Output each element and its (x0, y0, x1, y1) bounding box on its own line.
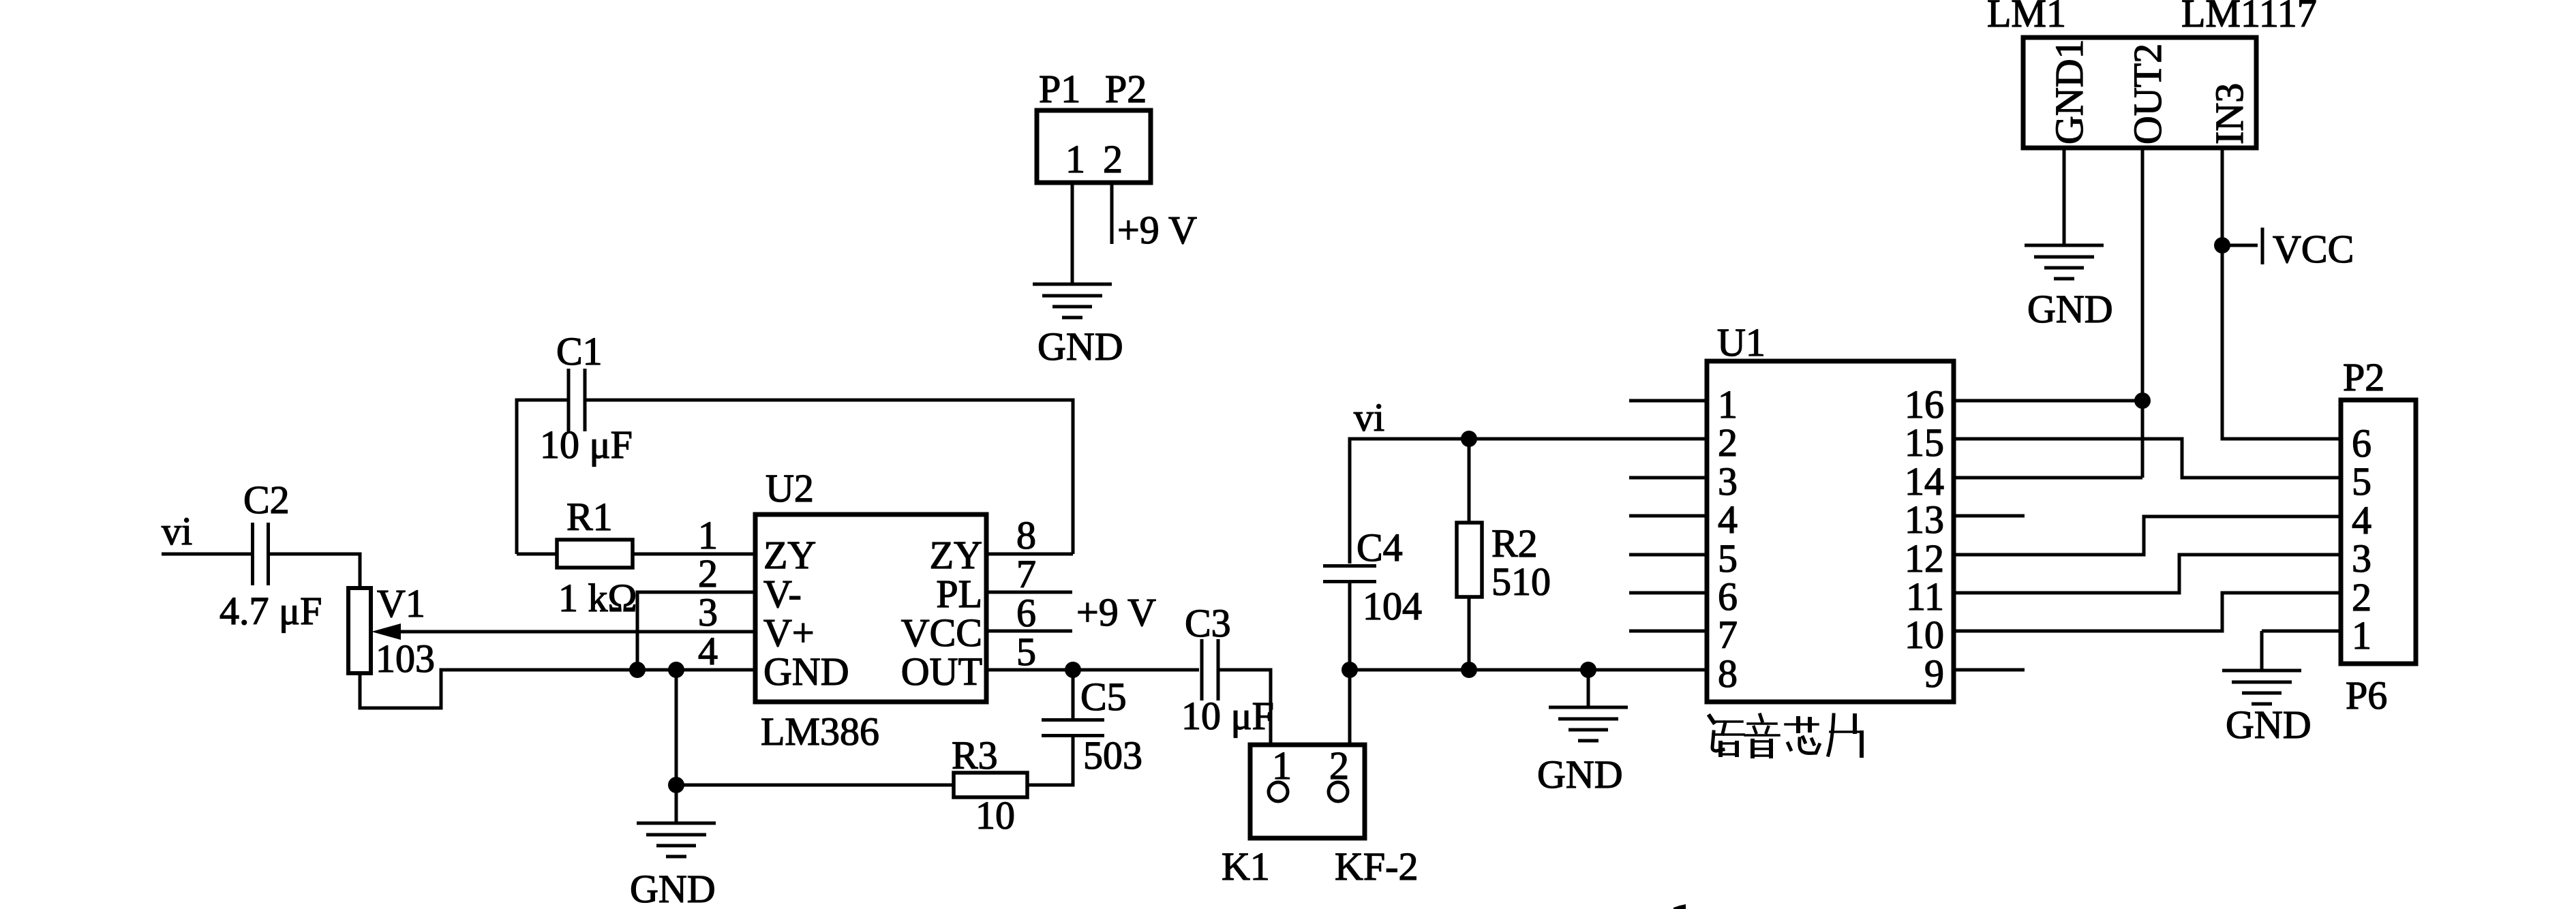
svg-text:510: 510 (1491, 559, 1551, 604)
svg-text:P1: P1 (1039, 67, 1080, 111)
svg-text:GND1: GND1 (2047, 39, 2091, 144)
svg-text:PL: PL (936, 572, 982, 616)
svg-text:R1: R1 (566, 495, 613, 539)
svg-text:10: 10 (975, 793, 1015, 837)
svg-text:GND: GND (1537, 752, 1623, 797)
svg-text:vi: vi (1354, 395, 1384, 440)
svg-text:3: 3 (698, 590, 718, 634)
svg-text:KF-2: KF-2 (1335, 844, 1418, 889)
svg-text:8: 8 (1016, 513, 1036, 557)
svg-text:4: 4 (1718, 497, 1738, 542)
svg-text:104: 104 (1363, 584, 1422, 628)
svg-text:2: 2 (1329, 743, 1349, 788)
svg-text:U2: U2 (766, 466, 814, 510)
svg-text:10: 10 (1905, 613, 1944, 657)
svg-text:503: 503 (1083, 733, 1142, 777)
svg-text:2: 2 (1103, 137, 1123, 181)
svg-text:VCC: VCC (901, 611, 982, 655)
svg-text:VCC: VCC (2273, 227, 2354, 271)
svg-text:C2: C2 (243, 478, 290, 522)
svg-text:vi: vi (162, 509, 192, 553)
svg-text:K1: K1 (1222, 844, 1270, 889)
svg-text:4.7 μF: 4.7 μF (219, 589, 322, 633)
svg-text:GND: GND (2226, 703, 2312, 747)
svg-text:C5: C5 (1080, 675, 1127, 719)
svg-text:C1: C1 (556, 329, 603, 373)
svg-text:C4: C4 (1357, 525, 1403, 570)
svg-text:LM1117: LM1117 (2181, 0, 2317, 35)
svg-text:OUT: OUT (901, 649, 982, 694)
svg-text:ZY: ZY (930, 533, 982, 577)
svg-text:V1: V1 (377, 581, 425, 626)
svg-text:3: 3 (2352, 536, 2372, 581)
svg-text:P6: P6 (2346, 673, 2387, 718)
svg-text:+9 V: +9 V (1117, 208, 1197, 252)
svg-text:LM1: LM1 (1987, 0, 2066, 35)
svg-text:GND: GND (2027, 287, 2113, 331)
svg-text:IN3: IN3 (2207, 83, 2252, 144)
svg-text:2: 2 (698, 551, 718, 596)
svg-text:5: 5 (2352, 459, 2372, 504)
svg-text:6: 6 (1016, 591, 1036, 635)
svg-text:C3: C3 (1185, 601, 1231, 645)
svg-text:U1: U1 (1717, 320, 1766, 365)
svg-text:+9 V: +9 V (1076, 590, 1156, 634)
svg-text:GND: GND (630, 867, 716, 909)
svg-text:1 kΩ: 1 kΩ (558, 576, 637, 620)
svg-text:P2: P2 (2343, 355, 2384, 399)
svg-text:ZY: ZY (763, 533, 816, 577)
svg-text:OUT2: OUT2 (2125, 44, 2170, 144)
svg-text:1: 1 (1065, 137, 1085, 181)
svg-text:9: 9 (1924, 651, 1944, 696)
svg-text:10 μF: 10 μF (1181, 694, 1274, 738)
svg-text:GND: GND (763, 649, 849, 694)
svg-text:GND: GND (1037, 324, 1123, 369)
svg-text:10 μF: 10 μF (540, 422, 633, 467)
svg-text:5: 5 (1016, 630, 1036, 674)
svg-text:1: 1 (1272, 743, 1292, 788)
svg-text:7: 7 (1016, 552, 1036, 596)
svg-text:7: 7 (1718, 613, 1738, 657)
svg-text:4: 4 (698, 629, 718, 673)
svg-text:P2: P2 (1105, 67, 1147, 111)
svg-text:V-: V- (763, 572, 802, 616)
svg-text:LM386: LM386 (761, 709, 879, 754)
svg-text:2: 2 (1718, 420, 1738, 465)
svg-text:103: 103 (376, 636, 435, 681)
svg-text:1: 1 (2352, 613, 2372, 658)
svg-text:8: 8 (1718, 651, 1738, 696)
svg-text:13: 13 (1905, 497, 1944, 542)
svg-text:15: 15 (1905, 420, 1944, 465)
svg-text:R3: R3 (952, 733, 998, 777)
svg-text:V+: V+ (763, 611, 815, 655)
